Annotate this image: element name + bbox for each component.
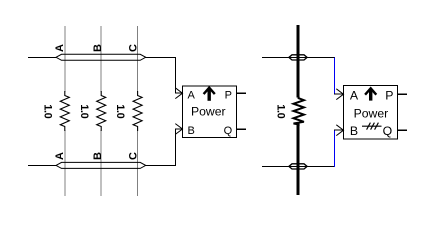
node: bottom tap capsule right circuit bbox=[289, 164, 307, 169]
svg-text:P: P bbox=[225, 90, 232, 102]
svg-text:B: B bbox=[188, 125, 195, 137]
resistor R4 (bundle, bold) bbox=[292, 97, 305, 127]
wire: U2.A pin lead bbox=[334, 93, 344, 95]
svg-text:Q: Q bbox=[383, 124, 393, 138]
svg-text:P: P bbox=[385, 88, 393, 102]
power meter block U2 bbox=[336, 85, 407, 139]
icon: discrete hash mark U2 bbox=[362, 123, 382, 130]
resistor R1 (phase A) bbox=[59, 91, 71, 131]
svg-text:A: A bbox=[350, 88, 359, 102]
resistor R2 (phase B) bbox=[95, 91, 107, 131]
pin chevron U2.A bbox=[336, 89, 343, 100]
svg-text:Power: Power bbox=[191, 105, 226, 119]
resistor R3 (phase C) bbox=[132, 91, 144, 131]
svg-text:Power: Power bbox=[354, 106, 389, 120]
pin stub U1.Q bbox=[237, 128, 247, 130]
wire: signal to U2.B (blue) bbox=[334, 131, 336, 167]
wire: phase conductor C (gray vertical) bbox=[137, 26, 139, 196]
svg-text:A: A bbox=[54, 44, 66, 52]
node: top tap capsule right circuit bbox=[289, 55, 307, 60]
wire: bottom-left stub into bus bbox=[28, 164, 56, 166]
pin chevron U1.B bbox=[175, 124, 182, 135]
pin stub U2.Q bbox=[398, 129, 408, 131]
node: top bus tap (capsule) left circuit bbox=[56, 54, 146, 60]
wire: U2.B pin lead bbox=[334, 129, 344, 131]
svg-text:Q: Q bbox=[224, 125, 233, 137]
svg-text:B: B bbox=[350, 124, 358, 138]
node: bottom bus tap (capsule) left circuit bbox=[56, 162, 146, 168]
pin stub U1.P bbox=[237, 92, 247, 94]
icon: up arrow U1 bbox=[207, 89, 210, 101]
wire: phase conductor B (gray vertical) bbox=[100, 26, 102, 196]
svg-text:1.0: 1.0 bbox=[78, 104, 90, 118]
svg-text:C: C bbox=[128, 44, 140, 52]
wire: bundle conductor (thick vertical) bbox=[296, 25, 299, 195]
pin chevron U2.B bbox=[336, 125, 343, 136]
wire: bottom horizontal through tap bbox=[262, 165, 335, 167]
icon: up arrow U2 bbox=[369, 89, 372, 100]
svg-text:B: B bbox=[92, 152, 104, 160]
svg-text:C: C bbox=[128, 152, 140, 160]
svg-text:B: B bbox=[92, 44, 104, 52]
svg-text:A: A bbox=[54, 152, 66, 160]
wire: phase conductor A (gray vertical) bbox=[64, 26, 66, 196]
power meter block U1 bbox=[175, 86, 246, 138]
svg-text:1.0: 1.0 bbox=[41, 104, 53, 118]
wire: bottom bus to U1 input B bbox=[146, 129, 183, 165]
wire: top horizontal through tap bbox=[262, 56, 335, 58]
wire: top bus to U1 input A bbox=[146, 57, 183, 93]
svg-text:1.0: 1.0 bbox=[275, 104, 287, 118]
svg-text:A: A bbox=[188, 90, 196, 102]
wire: signal to U2.A (blue) bbox=[334, 57, 336, 93]
svg-text:1.0: 1.0 bbox=[114, 104, 126, 118]
wire: top-left stub into bus bbox=[28, 56, 56, 58]
pin stub U2.P bbox=[398, 93, 408, 95]
pin chevron U1.A bbox=[175, 88, 182, 99]
